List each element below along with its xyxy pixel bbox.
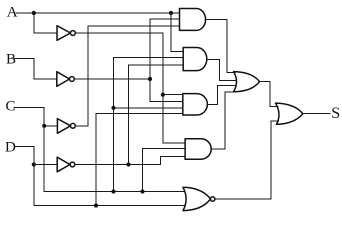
NOR gate G7 bubble — [211, 197, 215, 201]
svg-text:S: S — [331, 105, 340, 122]
AND gate G2 (A·C·D') — [183, 48, 207, 71]
wire A branch down to AND2 input — [171, 13, 183, 52]
inverter U2 (B') — [57, 72, 70, 87]
wire OR1 output to OR2 input 1 — [260, 82, 278, 107]
wire net A' from inverter U1 output — [75, 33, 185, 143]
svg-text:D: D — [5, 140, 16, 156]
wire C branch to AND3 input 3 — [114, 107, 183, 109]
wire net B' from inverter U2 output — [74, 78, 150, 80]
wire D' riser to AND2 input 3 — [129, 65, 184, 165]
junction A' to AND3 branch — [161, 93, 165, 97]
wire C riser to AND4 input 2 — [143, 149, 186, 192]
wire C riser to AND2 input 2 — [114, 58, 184, 192]
wire D riser to AND3 input 4 — [96, 114, 183, 206]
wire OR2 output to S — [303, 113, 330, 115]
wire net D input rail down and along bottom to NOR — [15, 147, 185, 206]
OR gate G5 (4-input) — [234, 72, 260, 92]
NOR gate G7 body — [183, 187, 211, 210]
wire NOR output to OR2 input 2 — [215, 121, 279, 199]
wire net B input to inverter U2 — [14, 59, 56, 80]
wire AND3 output to OR1 input 3 — [207, 86, 236, 105]
wire net C' from inverter U3 output to AND1 input 3 — [75, 26, 179, 126]
junction A to inverter branch — [32, 11, 36, 15]
junction A to AND2 branch — [169, 11, 173, 15]
svg-text:B: B — [6, 51, 16, 67]
svg-text:C: C — [6, 99, 16, 115]
junction B' riser — [148, 77, 152, 81]
wire net C input rail down and along bottom to NOR — [14, 108, 184, 192]
svg-text:A: A — [7, 4, 18, 20]
AND gate G4 (A'·C·D') — [185, 139, 211, 159]
wire D branch to inverter U4 — [34, 164, 57, 166]
inverter U3 (C') — [57, 119, 70, 134]
wire AND2 output to OR1 input 2 — [207, 59, 236, 80]
wire A branch to inverter U1 — [34, 13, 57, 33]
junction D line riser — [94, 203, 98, 207]
wire C branch to inverter U3 — [44, 125, 57, 127]
wire AND1 output to OR1 input 1 — [205, 19, 235, 72]
junction D to inverter branch — [32, 162, 36, 166]
junction C to inverter branch — [42, 124, 46, 128]
wire net D' from inverter U4 output — [75, 157, 185, 165]
inverter U1 (A') — [57, 26, 71, 41]
wire B' riser to AND1 input 2 — [150, 19, 180, 102]
inverter U4 (D') — [57, 157, 70, 172]
junction C line riser 1 — [111, 189, 115, 193]
wire B' branch to AND3 input 2 — [150, 101, 183, 103]
AND gate G3 (A'·B'·C·D) — [183, 94, 208, 115]
wire AND4 output to OR1 input 4 — [211, 92, 235, 149]
OR gate G6 (output S) — [276, 103, 303, 124]
junction C line riser 2 — [140, 189, 144, 193]
junction D' riser — [126, 162, 130, 166]
junction C riser to AND3 branch — [111, 106, 115, 110]
AND gate G1 (A·B'·C') — [180, 9, 206, 31]
wire A' branch to AND3 input 1 — [163, 94, 183, 96]
wire net A horizontal rail — [16, 12, 180, 14]
